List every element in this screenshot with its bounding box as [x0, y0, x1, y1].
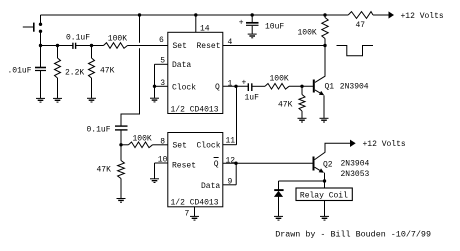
svg-text:3: 3	[160, 79, 165, 88]
svg-text:47K: 47K	[100, 67, 115, 76]
svg-text:7: 7	[185, 210, 190, 219]
svg-text:Set: Set	[173, 42, 187, 51]
svg-text:100K: 100K	[270, 75, 289, 84]
svg-text:2N3904: 2N3904	[340, 83, 369, 92]
svg-text:100K: 100K	[108, 35, 127, 44]
svg-text:Q2: Q2	[323, 161, 333, 170]
svg-text:Data: Data	[201, 182, 220, 191]
svg-text:Clock: Clock	[172, 84, 196, 93]
svg-text:2N3053: 2N3053	[341, 170, 370, 179]
svg-text:9: 9	[228, 178, 233, 187]
svg-text:Set: Set	[173, 142, 187, 151]
svg-text:0.1uF: 0.1uF	[87, 126, 111, 135]
svg-text:6: 6	[159, 36, 164, 45]
svg-text:47: 47	[356, 21, 366, 30]
svg-text:.01uF: .01uF	[8, 67, 32, 76]
svg-text:Q: Q	[214, 160, 219, 169]
svg-text:Reset: Reset	[172, 162, 196, 171]
svg-text:47K: 47K	[278, 101, 293, 110]
svg-text:10: 10	[158, 156, 168, 165]
svg-text:11: 11	[226, 137, 236, 146]
svg-text:Reset: Reset	[197, 42, 221, 51]
svg-text:+12 Volts: +12 Volts	[363, 140, 406, 149]
svg-text:Drawn by - Bill Bouden -10/7/9: Drawn by - Bill Bouden -10/7/99	[275, 230, 431, 240]
svg-text:Q: Q	[215, 83, 220, 92]
svg-text:Data: Data	[172, 61, 191, 70]
svg-text:Relay Coil: Relay Coil	[300, 192, 348, 201]
svg-text:5: 5	[160, 57, 165, 66]
svg-text:Q1: Q1	[325, 83, 335, 92]
svg-text:100K: 100K	[133, 135, 152, 144]
svg-text:1uF: 1uF	[245, 94, 260, 103]
svg-text:+: +	[239, 18, 244, 27]
svg-text:1/2 CD4013: 1/2 CD4013	[171, 106, 219, 115]
svg-text:47K: 47K	[97, 166, 112, 175]
svg-text:1/2 CD4013: 1/2 CD4013	[171, 199, 219, 208]
svg-text:14: 14	[200, 25, 210, 34]
svg-text:+12 Volts: +12 Volts	[401, 12, 444, 21]
svg-text:2N3904: 2N3904	[341, 160, 370, 169]
svg-text:12: 12	[226, 157, 236, 166]
svg-text:4: 4	[228, 38, 233, 47]
svg-text:100K: 100K	[298, 29, 317, 38]
svg-text:0.1uF: 0.1uF	[66, 34, 90, 43]
svg-text:Clock: Clock	[197, 142, 221, 151]
svg-text:10uF: 10uF	[265, 23, 284, 32]
svg-text:+: +	[242, 79, 247, 88]
svg-text:2.2K: 2.2K	[65, 69, 84, 78]
svg-text:8: 8	[160, 138, 165, 147]
svg-text:1: 1	[228, 80, 233, 89]
